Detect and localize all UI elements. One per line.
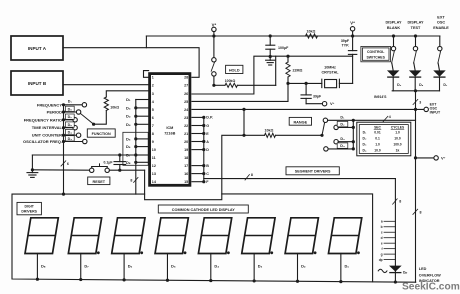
bus slash 8 drop	[393, 199, 402, 204]
diode D₈ 1N914	[410, 71, 424, 91]
svg-text:11: 11	[152, 156, 156, 160]
range contact D₂	[334, 121, 355, 129]
svg-text:D₈: D₈	[419, 83, 424, 87]
node V+ terminal crystal	[322, 101, 334, 106]
svg-text:9: 9	[152, 140, 154, 144]
svg-text:39pF: 39pF	[341, 39, 350, 43]
seven segment digit D₄	[198, 218, 231, 282]
svg-text:D₂: D₂	[340, 123, 345, 127]
bus slash 6	[61, 161, 69, 166]
svg-text:12: 12	[152, 164, 156, 168]
svg-text:15: 15	[184, 180, 188, 184]
resistor 10kΩ function	[94, 91, 149, 124]
wire INPUT A to pin 28	[63, 48, 199, 78]
svg-text:COMMON CATHODE LED DISPLAY: COMMON CATHODE LED DISPLAY	[172, 208, 236, 212]
svg-text:FREQUENCY RATIO: FREQUENCY RATIO	[24, 117, 62, 122]
svg-text:D₈: D₈	[126, 160, 131, 165]
svg-text:100.0: 100.0	[393, 143, 401, 147]
svg-text:3: 3	[152, 92, 154, 96]
resistor 100kΩ	[214, 79, 276, 88]
label SEGMENT DRIVERS	[286, 167, 339, 175]
range contact D₄	[324, 143, 355, 151]
switch control 1	[391, 34, 395, 70]
bus slash 4	[383, 115, 391, 122]
svg-text:D.P.: D.P.	[206, 116, 213, 120]
svg-text:D₄: D₄	[340, 144, 345, 148]
svg-text:16: 16	[184, 172, 188, 176]
svg-text:0.1: 0.1	[375, 137, 380, 141]
svg-text:18: 18	[184, 156, 188, 160]
crystal 10MHz	[286, 65, 352, 87]
wire range bundle	[353, 119, 415, 121]
svg-text:D₄: D₄	[68, 131, 73, 135]
svg-text:c: c	[381, 231, 383, 235]
svg-text:D₁: D₁	[68, 100, 73, 104]
switch RESET pushbutton	[32, 164, 144, 173]
svg-text:D₆: D₆	[128, 263, 133, 268]
svg-text:7216B: 7216B	[164, 132, 175, 136]
svg-text:D₁: D₁	[126, 97, 131, 102]
wire digit line D₆ pin 10	[126, 144, 148, 149]
switch FUNCTION blade	[81, 114, 96, 126]
capacitor 39pF TYP	[341, 36, 357, 83]
node V+ terminal left	[212, 22, 217, 37]
wire segment line D.P.	[192, 116, 213, 120]
svg-text:10.0: 10.0	[394, 137, 401, 141]
svg-text:22: 22	[184, 124, 188, 128]
capacitor 100µF	[266, 34, 289, 58]
LED overflow indicator Dₚ	[378, 266, 407, 275]
svg-text:SEGMENT DRIVERS: SEGMENT DRIVERS	[295, 170, 331, 174]
wire digit line D₂ pin 6	[126, 114, 148, 119]
display box outline	[12, 194, 416, 282]
wire pin 1 stub	[144, 71, 149, 78]
svg-text:CRYSTAL: CRYSTAL	[321, 70, 339, 74]
svg-text:D₄: D₄	[126, 122, 131, 127]
svg-text:D₁: D₁	[340, 116, 345, 120]
svg-text:RANGE: RANGE	[293, 120, 307, 124]
op-amp U1 ICM7216B body	[150, 74, 190, 186]
wire pin 25 to oscillator	[192, 83, 288, 101]
bus slash 8 right	[413, 209, 422, 214]
wire reset to display jog	[145, 135, 244, 199]
wire digit line D₇ pin 11	[126, 153, 148, 158]
svg-text:D₄: D₄	[397, 83, 402, 87]
svg-text:D₃: D₃	[126, 105, 131, 110]
svg-text:D₆: D₆	[126, 144, 131, 149]
function contact OSCILLATOR FREQ. D₃	[23, 136, 87, 144]
wire segment rail	[204, 178, 396, 180]
svg-text:SWITCHES: SWITCHES	[366, 56, 385, 60]
node V+ terminal right	[434, 155, 446, 160]
wire diode common rail	[392, 89, 439, 92]
svg-text:INPUT A: INPUT A	[28, 46, 47, 51]
svg-text:IN914'S: IN914'S	[374, 95, 387, 99]
svg-text:10MHz: 10MHz	[324, 65, 336, 69]
svg-text:8: 8	[152, 132, 154, 136]
svg-text:b: b	[381, 225, 383, 229]
svg-text:D: D	[206, 148, 209, 152]
svg-text:RESET: RESET	[92, 180, 105, 184]
svg-text:1k: 1k	[396, 149, 400, 153]
svg-text:6: 6	[152, 116, 154, 120]
svg-text:100kΩ: 100kΩ	[225, 79, 236, 83]
function contact FREQUENCY RATIO D₂	[24, 114, 78, 122]
svg-text:10kΩ: 10kΩ	[265, 129, 274, 133]
svg-text:C: C	[206, 172, 209, 176]
svg-text:25: 25	[184, 100, 188, 104]
ground	[27, 170, 38, 178]
svg-text:D₅: D₅	[171, 263, 176, 268]
wire pin24 drop to range	[242, 109, 245, 136]
svg-text:100µF: 100µF	[278, 46, 289, 50]
ground at 100uF	[266, 57, 275, 66]
pin numbers 1-28	[152, 76, 189, 184]
svg-text:ENABLE: ENABLE	[433, 26, 449, 30]
labels control switch names	[385, 15, 449, 29]
svg-text:D₁: D₁	[363, 131, 367, 135]
svg-text:27: 27	[184, 84, 188, 88]
svg-text:D₃: D₃	[68, 137, 73, 141]
svg-text:FUNCTION: FUNCTION	[92, 132, 111, 136]
svg-text:D₇: D₇	[84, 263, 89, 268]
svg-text:26: 26	[184, 92, 188, 96]
svg-text:D₁: D₁	[443, 83, 448, 87]
svg-text:D₁: D₁	[344, 263, 349, 268]
label FUNCTION	[87, 129, 115, 137]
label HOLD	[226, 65, 243, 73]
function contact UNIT COUNTER D₄	[32, 129, 81, 137]
label IN914S	[374, 95, 387, 99]
svg-text:19: 19	[184, 148, 188, 152]
svg-text:OSC: OSC	[437, 21, 445, 25]
wire hold resistor to osc node	[192, 56, 276, 94]
svg-text:CONTROL: CONTROL	[367, 50, 385, 54]
svg-text:INPUT B: INPUT B	[28, 81, 47, 86]
watermark SeekIC.com	[402, 282, 460, 293]
node EXT OSC INPUT terminal	[424, 102, 441, 114]
svg-text:D₅: D₅	[126, 136, 131, 141]
diode D₁ 1N914	[434, 71, 448, 91]
wire control bus vertical	[415, 91, 417, 282]
segment ladder a-dp	[379, 220, 396, 262]
svg-text:UNIT COUNTER: UNIT COUNTER	[32, 133, 62, 138]
wire digit bus vertical	[135, 100, 137, 195]
wire digit line D₈ pin 12	[126, 160, 148, 165]
svg-text:10: 10	[152, 148, 156, 152]
svg-text:23: 23	[184, 116, 188, 120]
switch HOLD	[211, 58, 216, 87]
input amplifier block INPUT B	[11, 71, 63, 95]
svg-text:DIGIT: DIGIT	[25, 205, 35, 209]
label COMMON CATHODE LED DISPLAY	[158, 205, 248, 213]
svg-text:2: 2	[152, 84, 154, 88]
svg-text:g: g	[381, 252, 383, 256]
seven segment digit D₂	[285, 218, 318, 283]
svg-text:TIME INTERVAL: TIME INTERVAL	[32, 125, 63, 130]
wire INPUT B to pin 2	[63, 84, 148, 86]
svg-text:1.0: 1.0	[395, 131, 400, 135]
svg-text:A: A	[206, 140, 209, 144]
wire segment line A	[192, 140, 209, 144]
switch control 2	[413, 34, 417, 70]
bus slash 3	[413, 99, 421, 104]
labels LED OVERFLOW INDICATOR	[419, 267, 441, 283]
svg-text:e: e	[381, 241, 383, 245]
svg-text:8: 8	[130, 179, 132, 183]
node ext osc junction	[414, 108, 417, 111]
wire segment line E	[192, 132, 209, 136]
svg-text:0.01: 0.01	[374, 131, 381, 135]
svg-text:LED: LED	[419, 267, 427, 271]
node V+ terminal mid	[350, 21, 355, 38]
capacitor 39pF	[301, 82, 322, 104]
input amplifier block INPUT A	[11, 36, 63, 60]
svg-text:1.0: 1.0	[375, 143, 380, 147]
svg-text:D₃: D₃	[258, 263, 263, 268]
wire V+ branch right	[414, 156, 434, 159]
node function bus to display	[62, 193, 65, 196]
range table	[357, 122, 411, 156]
function contact PERIOD D₈	[47, 106, 81, 114]
svg-text:SeekIC.com: SeekIC.com	[402, 282, 460, 293]
bus slash 8 segment	[245, 173, 253, 180]
svg-text:TYP.: TYP.	[342, 44, 349, 48]
svg-text:SEC: SEC	[374, 126, 381, 130]
wire segment line D	[192, 148, 209, 152]
wire segment line G	[192, 124, 209, 128]
label RESET	[88, 177, 110, 185]
svg-text:B: B	[206, 164, 209, 168]
svg-text:OVERFLOW: OVERFLOW	[419, 273, 441, 277]
label CONTROL SWITCHES	[361, 46, 391, 61]
capacitor 0.1µF	[103, 155, 125, 172]
range contact D₃	[334, 137, 355, 144]
wire ground drop	[31, 155, 34, 171]
svg-text:39pF: 39pF	[313, 95, 322, 99]
svg-text:17: 17	[184, 164, 188, 168]
svg-text:D₂: D₂	[363, 137, 367, 141]
svg-text:28: 28	[184, 76, 188, 80]
wire segment line B	[192, 164, 209, 168]
range contact D₁	[323, 116, 355, 123]
svg-text:0.1µF: 0.1µF	[103, 161, 113, 165]
svg-text:20: 20	[184, 140, 188, 144]
wire V+ to hold switch	[213, 36, 215, 58]
svg-text:5: 5	[152, 108, 154, 112]
svg-text:INPUT: INPUT	[430, 111, 441, 115]
label DIGIT DRIVERS	[17, 202, 41, 214]
wire segment line F	[192, 180, 209, 184]
bus slash 8 digit	[130, 177, 138, 182]
svg-text:D₂: D₂	[301, 263, 306, 268]
wire digit line D₁ pin 4	[126, 97, 148, 102]
seven segment digit D₅	[155, 218, 188, 282]
svg-text:HOLD: HOLD	[229, 68, 240, 72]
seven segment digit D₆	[112, 218, 145, 282]
switch control 3	[438, 36, 442, 71]
svg-text:OSCILLATOR FREQ.: OSCILLATOR FREQ.	[23, 139, 62, 144]
svg-text:D₃: D₃	[362, 143, 366, 147]
svg-text:G: G	[206, 124, 209, 128]
resistor 10kΩ range	[244, 129, 324, 138]
switch RANGE blade	[322, 123, 325, 136]
svg-text:6: 6	[67, 162, 69, 166]
wire digit line D₅ pin 9	[126, 136, 148, 141]
wire pin 24 ext osc input	[192, 108, 424, 111]
svg-text:DISPLAY: DISPLAY	[385, 20, 402, 24]
diode D₄ 1N914	[388, 71, 402, 91]
svg-text:8: 8	[251, 173, 253, 177]
wire oscillator node rail	[276, 55, 353, 57]
svg-text:D₄: D₄	[362, 149, 366, 153]
svg-text:d: d	[381, 236, 383, 240]
svg-text:10kΩ: 10kΩ	[307, 30, 316, 34]
svg-text:PERIOD: PERIOD	[47, 110, 62, 115]
svg-text:1: 1	[152, 76, 154, 80]
wire digit line D₄ pin 7	[126, 122, 148, 127]
svg-text:D₃: D₃	[340, 137, 345, 141]
svg-text:D₈: D₈	[41, 263, 46, 268]
seven segment digit D₁	[328, 218, 361, 283]
svg-text:10.0: 10.0	[374, 149, 381, 153]
resistor 10kΩ top	[306, 30, 318, 39]
group box D5-D8	[123, 132, 148, 165]
svg-text:EXT: EXT	[437, 15, 445, 19]
svg-text:DRIVERS: DRIVERS	[21, 209, 37, 213]
svg-text:D₄: D₄	[214, 263, 219, 268]
svg-text:D₂: D₂	[126, 114, 131, 119]
svg-text:22MΩ: 22MΩ	[293, 68, 303, 72]
svg-text:CYCLES: CYCLES	[391, 126, 405, 130]
wire segment bus vertical	[203, 117, 205, 181]
wire function bus vertical	[63, 105, 65, 194]
svg-text:D₅: D₅	[68, 123, 73, 127]
svg-text:7: 7	[152, 124, 154, 128]
seven segment digit D₇	[68, 218, 101, 281]
svg-text:dp: dp	[379, 258, 383, 262]
function contact TIME INTERVAL D₅	[32, 122, 78, 130]
seven segment digit D₈	[25, 218, 58, 281]
svg-text:a: a	[381, 220, 383, 224]
wire top V+ rail	[146, 35, 439, 37]
svg-text:3: 3	[419, 100, 421, 104]
function contact FREQUENCY D₁	[37, 100, 87, 108]
wire digit line D₃ pin 5	[126, 105, 148, 110]
wire segment drop	[394, 179, 397, 284]
wire D7 line left	[32, 153, 135, 156]
svg-text:BLANK: BLANK	[387, 26, 401, 30]
wire range bus vertical	[352, 120, 354, 149]
wire segment line C	[192, 172, 209, 176]
svg-text:ICM: ICM	[166, 126, 173, 130]
svg-text:13: 13	[152, 172, 156, 176]
seven segment digit D₃	[242, 218, 275, 283]
wire V+ rail spur	[145, 36, 147, 48]
label RANGE	[289, 117, 311, 125]
svg-text:DISPLAY: DISPLAY	[407, 20, 424, 24]
svg-text:TEST: TEST	[411, 26, 421, 30]
svg-text:8: 8	[399, 199, 401, 203]
svg-text:4: 4	[389, 115, 391, 119]
svg-text:FREQUENCY: FREQUENCY	[37, 102, 62, 107]
resistor 22MΩ	[286, 55, 303, 84]
svg-text:D₂: D₂	[68, 115, 73, 119]
svg-text:10kΩ: 10kΩ	[110, 105, 119, 109]
svg-text:D₈: D₈	[68, 107, 73, 111]
svg-text:21: 21	[184, 132, 188, 136]
svg-text:8: 8	[420, 210, 422, 214]
